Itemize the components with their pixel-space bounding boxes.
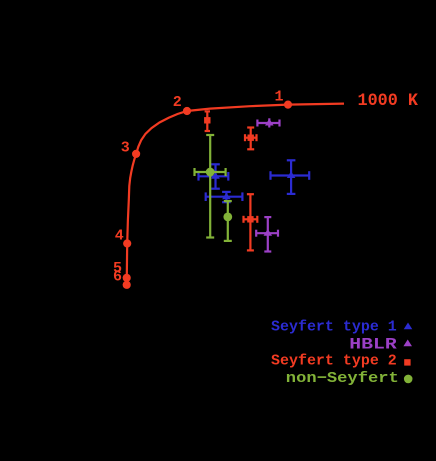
curve dot 3 <box>132 150 140 158</box>
svg-text:non−Seyfert: non−Seyfert <box>286 370 399 387</box>
curve dot 2 <box>183 107 191 115</box>
nonSeyfert point G2 <box>223 201 232 241</box>
svg-text:1: 1 <box>274 88 283 105</box>
HBLR point P1 <box>257 118 279 127</box>
Seyfert2 point S2 <box>245 128 257 150</box>
svg-text:4: 4 <box>115 227 124 244</box>
Seyfert2 point S3 <box>244 194 258 250</box>
svg-text:HBLR: HBLR <box>349 335 397 353</box>
svg-text:1000 K: 1000 K <box>358 92 419 111</box>
svg-text:3: 3 <box>121 140 130 157</box>
blackbody curve <box>127 104 344 285</box>
svg-text:Seyfert type 1: Seyfert type 1 <box>271 318 397 335</box>
Seyfert2 point S1 <box>204 111 210 131</box>
curve dot 4 <box>123 239 131 247</box>
Seyfert1 point B1 <box>199 164 229 188</box>
svg-text:6: 6 <box>113 269 122 286</box>
nonSeyfert point G1 <box>195 135 226 238</box>
curve dot 6 <box>123 281 131 289</box>
curve dot 5 <box>123 274 131 282</box>
svg-text:Seyfert type 2: Seyfert type 2 <box>271 353 397 370</box>
svg-text:2: 2 <box>173 94 182 111</box>
HBLR point P2 <box>256 217 278 251</box>
Seyfert1 point B3 <box>206 192 243 202</box>
curve dot 1 <box>284 101 292 109</box>
Seyfert1 point B2 <box>271 160 310 194</box>
